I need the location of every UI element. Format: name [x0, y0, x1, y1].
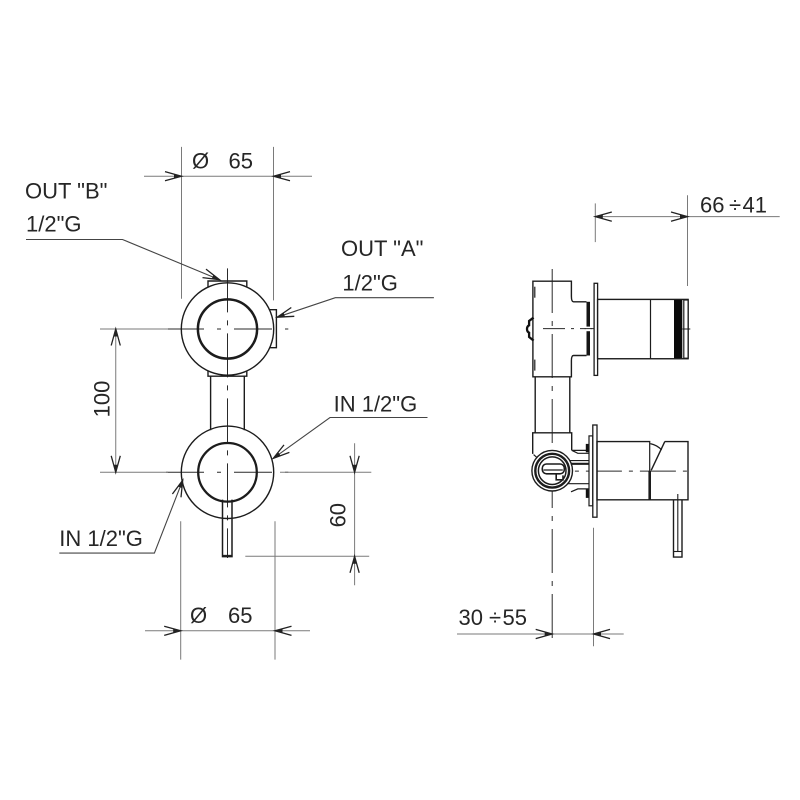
wall flange outer plate (bottom)	[593, 425, 597, 517]
dimension line 60	[354, 443, 356, 585]
dimension line top	[144, 175, 312, 177]
centerline horizontal bottom circle	[166, 471, 288, 473]
centerline horizontal top (side)	[543, 328, 599, 330]
dimension line 66-41	[595, 216, 779, 218]
svg-text:Ø: Ø	[190, 603, 207, 628]
handle stem vertical line (thin upper)	[649, 442, 651, 471]
arrow left (outside, pointing right)	[165, 172, 182, 181]
leader arrowhead OUT B	[203, 269, 220, 280]
svg-text:41: 41	[743, 193, 767, 218]
handle tilt diagonal	[651, 442, 665, 471]
svg-text:65: 65	[228, 603, 252, 628]
wall flange inner plate (bottom)	[589, 436, 593, 506]
extension line left bottom	[180, 521, 182, 659]
svg-text:÷: ÷	[729, 193, 741, 218]
centerline horizontal top circle	[166, 328, 288, 330]
drain pin bottom cap line	[223, 554, 233, 556]
arrow up (inside)	[111, 329, 120, 346]
trim cylinder (top, section)	[598, 299, 689, 358]
centerline vertical (front view axis)	[227, 268, 229, 558]
arrow top (outside, pointing down)	[350, 456, 359, 473]
elbow to flange connector top	[572, 450, 589, 453]
bottom valve outer circle	[181, 426, 273, 518]
svg-text:30: 30	[459, 605, 483, 630]
extension line bottom (left of bottom circle)	[100, 471, 168, 473]
mounting screw bottom (behind flange)	[586, 490, 589, 498]
connecting pipe between circles (front)	[210, 376, 212, 430]
black o-ring band	[674, 300, 682, 358]
hidden tab edge ticks on body left edge	[534, 287, 536, 298]
dimension line 100	[115, 329, 117, 472]
extension line right (cylinder end)	[687, 195, 689, 286]
leader underline IN lower	[59, 480, 182, 553]
handle swing arc	[650, 444, 661, 450]
extension line right of bottom circle center	[280, 471, 371, 473]
valve cartridge circle (side) middle	[535, 454, 569, 488]
retaining clip on body left	[527, 318, 534, 341]
drain pin below bottom circle	[223, 500, 233, 557]
valve cartridge circle (side) outer	[532, 450, 573, 491]
leader arrowhead IN lower	[172, 480, 182, 497]
connector mid lines (supply stub)	[570, 460, 589, 462]
svg-text:1/2"G: 1/2"G	[26, 212, 82, 237]
extension line at pin bottom	[245, 555, 369, 557]
arrow down (inside)	[111, 456, 120, 473]
arrow right (outside, pointing left)	[594, 629, 611, 638]
bottom valve inner circle	[198, 443, 257, 502]
svg-text:65: 65	[229, 149, 253, 174]
elbow fitting (bottom, side)	[533, 433, 572, 454]
arrow right (outside, pointing left)	[274, 172, 291, 181]
lever rod cap line	[674, 551, 683, 553]
right tab on top circle (OUT A port)	[270, 310, 277, 348]
mounting screw top (behind flange)	[586, 444, 589, 452]
dimension line 30-55	[457, 633, 624, 635]
centerline horizontal bottom (side)	[532, 470, 691, 472]
cartridge hook detail	[556, 474, 563, 480]
arrow left (inside, pointing left)	[595, 212, 612, 221]
top tab on top circle	[208, 281, 247, 287]
svg-text:÷: ÷	[489, 605, 501, 630]
lever rod inner line	[677, 494, 679, 552]
extension line right top	[273, 147, 275, 301]
valve cartridge circle (side) inner	[538, 457, 566, 485]
wall flange plate (top)	[594, 283, 598, 375]
end cap center tick	[683, 328, 691, 330]
cylinder seam line	[650, 299, 652, 358]
svg-text:100: 100	[90, 381, 115, 418]
elbow chamfer lower-left	[534, 455, 540, 460]
side body (top valve body)	[533, 281, 587, 377]
cartridge slot (rounded)	[542, 464, 564, 474]
extension line right bottom	[274, 521, 276, 659]
leader arrowhead IN upper	[273, 445, 289, 458]
handle lever rod	[674, 500, 683, 557]
svg-text:66: 66	[700, 193, 724, 218]
svg-text:IN 1/2"G: IN 1/2"G	[59, 526, 143, 551]
svg-text:1/2"G: 1/2"G	[342, 270, 398, 295]
top valve port outer circle	[181, 283, 273, 375]
leader arrowhead OUT A	[277, 308, 294, 318]
arrow left (outside, pointing right)	[536, 629, 553, 638]
top valve port inner circle	[198, 299, 257, 358]
svg-text:OUT "A": OUT "A"	[341, 236, 423, 261]
arrow right (inside, pointing right)	[671, 212, 688, 221]
extension line right (wall plane bottom)	[593, 528, 595, 646]
arrow right bottom (outside, pointing left)	[275, 626, 292, 635]
extension line left top	[181, 147, 183, 299]
leader underline IN upper	[273, 418, 427, 459]
centerline vertical (side view axis)	[551, 269, 553, 646]
side tab strip (port tab seen edge-on)	[587, 302, 591, 356]
svg-text:Ø: Ø	[192, 149, 209, 174]
svg-text:55: 55	[503, 605, 527, 630]
connector lower lines	[568, 484, 590, 492]
svg-text:OUT "B": OUT "B"	[25, 179, 107, 204]
bottom tab on top circle	[208, 371, 247, 376]
end cap of cylinder	[684, 300, 688, 358]
extension line left (wall plane)	[594, 203, 596, 242]
handle stem vertical line (thick lower)	[648, 471, 651, 500]
leader underline OUT A	[277, 298, 434, 318]
svg-text:IN 1/2"G: IN 1/2"G	[334, 391, 418, 416]
arrow left bottom (outside, pointing right)	[164, 626, 181, 635]
dimension line bottom	[145, 630, 310, 632]
cartridge slot inner line	[544, 469, 563, 471]
mixer trim cylinder (bottom)	[597, 442, 688, 500]
arrow bottom (outside, pointing up)	[350, 556, 359, 573]
svg-text:60: 60	[326, 503, 351, 527]
side pipe between body and elbow	[534, 378, 536, 433]
leader underline OUT B	[26, 240, 220, 280]
extension line top (left of top circle)	[100, 328, 168, 330]
